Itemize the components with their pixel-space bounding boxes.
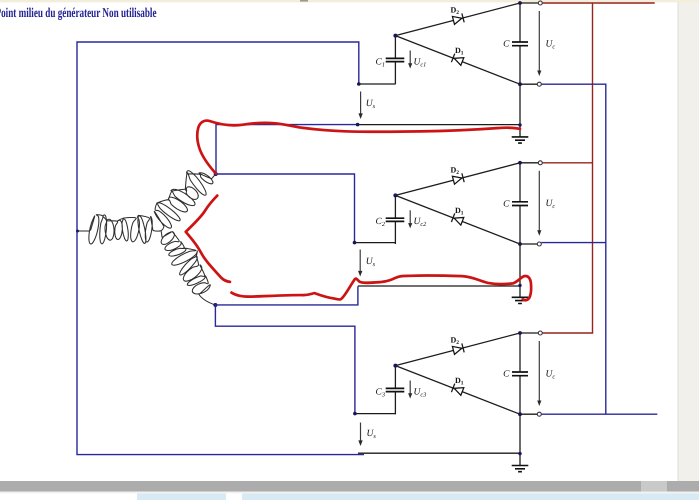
wire black input 2 to C2: [355, 242, 396, 244]
terminal ring top doubler 3: [538, 331, 542, 335]
node input 1 dot: [357, 82, 361, 86]
wire black input 1 to C1: [359, 83, 396, 85]
lower node dot doubler 2: [518, 242, 522, 246]
diode D1 (doubler 1): [451, 54, 464, 66]
arrow Uc (doubler 1): [538, 11, 540, 72]
terminal stub bottom doubler 1: [520, 83, 537, 85]
winding phase B (upper coil): [154, 171, 213, 229]
ground 3: [519, 414, 521, 465]
wire phase 3 feed: [215, 305, 355, 414]
diode D2 (doubler 2): [452, 173, 464, 184]
winding phase A (left coil): [89, 215, 153, 244]
wire right column doubler 2: [519, 163, 521, 244]
ground 1: [519, 84, 521, 137]
wire D1 branch doubler 1: [395, 36, 520, 85]
arrow Uc (doubler 2): [538, 171, 540, 232]
wire red output top (doubler 1): [542, 2, 654, 4]
wire blue output (doubler 1): [541, 84, 605, 414]
wire return 1 black part to ground 1: [358, 124, 520, 126]
taskbar strip: [0, 493, 699, 500]
wire red output (doubler 3): [542, 332, 593, 334]
wire blue outer frame (phase 1 feed + bottom return): [77, 42, 364, 455]
capacitor C1 (doubler 1): [394, 36, 396, 85]
bottom scrollbar: [0, 481, 699, 492]
junction upper winding dot: [214, 172, 218, 176]
capacitor C2 (doubler 2): [394, 195, 396, 244]
freehand red stroke 2 (chevron upper arm): [186, 196, 218, 232]
node input 3 dot: [353, 412, 357, 416]
arrow Uc1 (doubler 1): [409, 51, 411, 66]
junction return 1: [356, 123, 360, 127]
freehand red stroke 3 (chevron lower arm): [186, 232, 230, 282]
capacitor C (doubler 2): [512, 202, 528, 206]
node A3 junction dot: [393, 364, 397, 368]
arrow Us (phase 1): [360, 92, 362, 115]
wire upper coil to junction: [212, 174, 216, 179]
arrow Uc3 (doubler 3): [409, 381, 411, 396]
wire D2 branch doubler 3: [395, 333, 520, 366]
wire D1 branch doubler 2: [395, 195, 520, 244]
node input 2 dot: [353, 241, 357, 245]
arrow Us (phase 3): [360, 423, 362, 442]
right grey margin: [678, 2, 699, 481]
diode D1 (doubler 3): [451, 384, 464, 396]
diode D2 (doubler 3): [452, 343, 464, 354]
wire blue output (doubler 3): [541, 413, 657, 415]
terminal ring bottom doubler 3: [537, 412, 541, 416]
terminal stub top doubler 2: [520, 162, 538, 164]
wire black input 3 to C3: [355, 413, 396, 415]
svg-text:C: C: [503, 370, 510, 380]
node A1 junction dot: [393, 34, 397, 38]
svg-text:C: C: [503, 199, 510, 209]
wire phase 2 feed: [216, 174, 355, 243]
junction lower winding dot: [213, 303, 217, 307]
terminal ring bottom doubler 2: [537, 242, 541, 246]
arrow Uc2 (doubler 2): [409, 210, 411, 225]
freehand red stroke 4 (bottom wavy to ground 2): [232, 276, 532, 301]
svg-text:C: C: [503, 40, 510, 50]
arrow Uc (doubler 3): [538, 341, 540, 402]
terminal stub bottom doubler 2: [520, 243, 537, 245]
wire lower coil to junction: [199, 295, 215, 306]
node A2 junction dot: [393, 193, 397, 197]
lower node dot doubler 3: [518, 412, 522, 416]
apex node dot doubler 2: [518, 161, 522, 165]
lower node dot doubler 1: [518, 82, 522, 86]
terminal ring top doubler 1: [538, 1, 542, 5]
winding center link: [153, 227, 164, 238]
terminal ring top doubler 2: [538, 161, 542, 165]
freehand red stroke 1 (top loop + line to ground 1): [197, 121, 520, 174]
wire D1 branch doubler 3: [395, 366, 520, 415]
wire red vertical bus: [592, 3, 594, 333]
capacitor C (doubler 1): [512, 42, 528, 46]
winding phase C (lower coil): [161, 232, 210, 295]
wire red output (doubler 2): [542, 162, 592, 164]
wire right column doubler 3: [519, 333, 521, 414]
capacitor C3 (doubler 3): [394, 366, 396, 415]
terminal ring bottom doubler 1: [537, 82, 541, 86]
top beige strip: [0, 0, 699, 2]
apex node dot doubler 3: [518, 331, 522, 335]
wire return 3 black part to ground 3: [358, 452, 519, 454]
diode D1 (doubler 2): [451, 213, 464, 225]
wire return 1 blue part: [216, 125, 358, 174]
terminal stub top doubler 3: [520, 332, 538, 334]
wire D2 branch doubler 1: [395, 3, 520, 36]
generator stub wire: [77, 230, 90, 232]
terminal stub bottom doubler 3: [520, 413, 537, 415]
wire return 2 black part to ground 2: [358, 285, 520, 287]
diode D2 (doubler 1): [452, 13, 464, 24]
svg-text:Point milieu du générateur Non: Point milieu du générateur Non utilisabl…: [0, 5, 157, 20]
arrow Us (phase 2): [359, 250, 361, 273]
junction stub dot: [76, 230, 79, 233]
wire D2 branch doubler 2: [395, 163, 520, 196]
apex node dot doubler 1: [518, 1, 522, 5]
terminal stub top doubler 1: [520, 2, 538, 4]
wire return 2 blue part: [215, 286, 358, 305]
ground 2: [519, 244, 521, 297]
capacitor C (doubler 3): [512, 372, 528, 376]
wire blue output (doubler 2): [541, 242, 605, 244]
wire right column doubler 1: [519, 3, 521, 84]
